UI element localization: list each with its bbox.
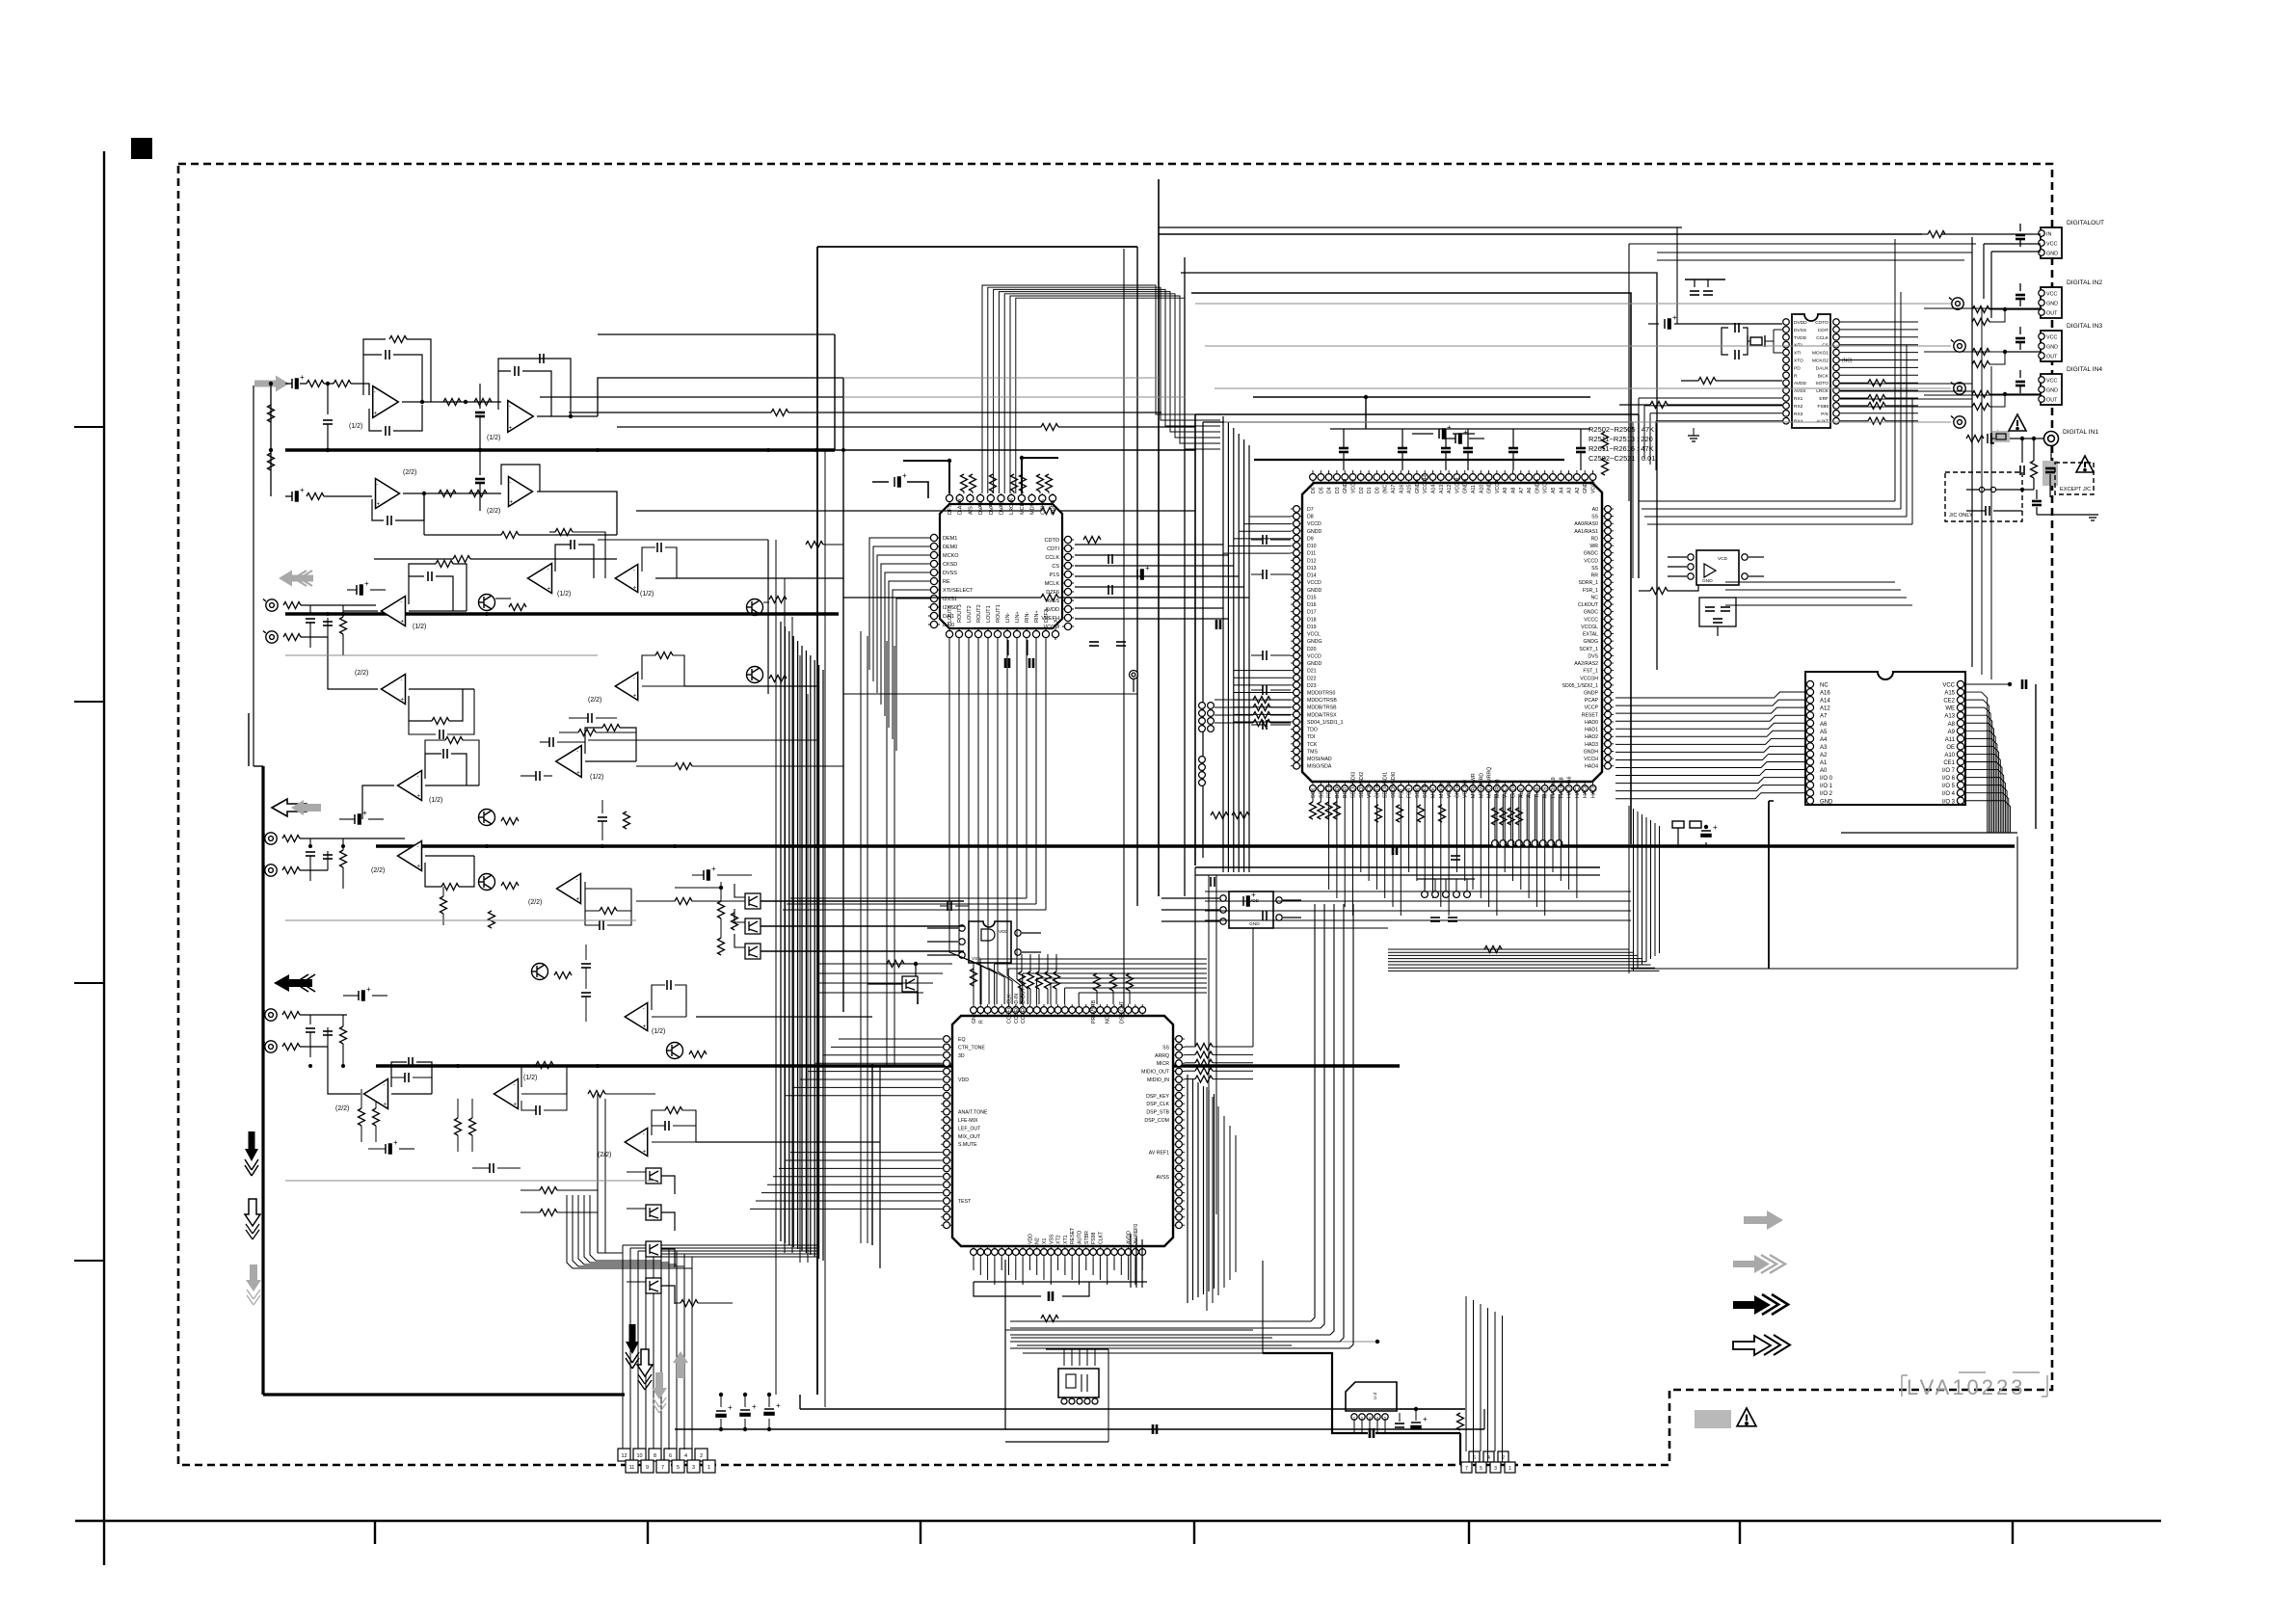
resistor R131	[806, 542, 823, 548]
resistor R169	[689, 1051, 707, 1058]
wire	[407, 339, 431, 402]
wire	[598, 333, 835, 335]
J/C ONLY dashed box	[1945, 472, 2022, 521]
svg-text:GNDG: GNDG	[1455, 783, 1460, 798]
jack J102 R-OUT	[263, 631, 278, 644]
svg-text:J/C ONLY: J/C ONLY	[1949, 513, 1973, 519]
wire U2 left stub	[1223, 552, 1291, 554]
wire	[973, 1258, 974, 1270]
wire	[1022, 951, 1041, 953]
wire U4 right fan	[1964, 793, 2009, 833]
connector pads row (below U2)	[1492, 840, 1562, 847]
wire	[2021, 439, 2023, 463]
wire	[1213, 1070, 1253, 1072]
wire	[1270, 724, 1291, 726]
svg-text:VCCP: VCCP	[1585, 705, 1599, 711]
svg-text:A11: A11	[1945, 737, 1956, 743]
wire	[1668, 575, 1687, 577]
wire mid bundle	[792, 636, 794, 1247]
wire	[585, 945, 587, 960]
wire	[903, 461, 949, 493]
capacitor C1612	[1108, 585, 1112, 595]
resistor R5101	[1698, 378, 1716, 385]
capacitor C5103	[1690, 291, 1699, 295]
svg-text:+: +	[362, 809, 367, 817]
junction	[2003, 350, 2007, 354]
wire feedback	[363, 355, 382, 395]
resistor R243	[1253, 720, 1270, 727]
svg-text:+: +	[400, 619, 404, 625]
wire	[652, 1110, 665, 1135]
wire	[1270, 573, 1291, 575]
wire	[1467, 429, 1469, 448]
svg-text:HA2/HA9: HA2/HA9	[1551, 777, 1557, 798]
svg-text:VCCB: VCCB	[1367, 784, 1373, 798]
resistor R2611	[1211, 812, 1228, 819]
wire	[442, 887, 444, 896]
svg-text:1: 1	[1508, 1466, 1511, 1472]
svg-text:CTR_TONE: CTR_TONE	[958, 1045, 985, 1051]
wire U2 left stub	[1249, 516, 1291, 518]
wire bus y1330	[974, 1281, 1147, 1283]
wire	[585, 882, 600, 911]
resistor R152	[675, 763, 692, 770]
wire U4 right fan	[1964, 762, 2002, 834]
svg-text:DIGITAL IN3: DIGITAL IN3	[2067, 323, 2102, 330]
resistor	[1972, 349, 1989, 356]
arrow A4 output (black)	[274, 974, 315, 992]
wire U3 left fan	[761, 1192, 941, 1194]
jack J5	[1951, 416, 1965, 429]
svg-text:WE: WE	[1945, 706, 1955, 712]
bottom ruler tick 4	[1193, 1521, 1195, 1544]
svg-text:TDO: TDO	[1307, 728, 1318, 733]
wire U5 right fan	[1840, 412, 1918, 414]
wire	[402, 401, 501, 403]
svg-text:X: X	[1054, 619, 1059, 623]
svg-text:GND: GND	[972, 1012, 977, 1024]
wire	[1448, 794, 1450, 916]
wire	[1022, 458, 1058, 493]
wire	[2019, 283, 2021, 291]
wire	[309, 623, 311, 648]
resistor R3001	[1019, 971, 1026, 989]
svg-text:HAD0: HAD0	[1585, 720, 1598, 726]
svg-text:A13: A13	[1439, 485, 1445, 493]
resistor R150	[489, 911, 495, 928]
IC U6 (gate) body	[969, 921, 1011, 963]
wire	[470, 558, 617, 560]
svg-text:CDIT: CDIT	[1818, 328, 1829, 333]
svg-text:A13: A13	[1944, 714, 1955, 720]
wire	[585, 968, 587, 989]
wire	[1213, 1062, 1253, 1064]
svg-text:+: +	[416, 793, 420, 799]
wire	[423, 493, 425, 535]
wire mid bundle	[822, 670, 824, 1261]
connector CN1 DIGITAL OUT	[2041, 227, 2062, 258]
capacitor C4102	[1672, 821, 1701, 828]
svg-text:3D: 3D	[958, 1053, 965, 1059]
capacitor C5105	[1665, 319, 1670, 329]
junction	[422, 492, 426, 495]
wire x1180	[1136, 247, 1138, 906]
svg-text:VCCD: VCCD	[1307, 580, 1322, 586]
svg-text:+: +	[576, 770, 580, 776]
wire U1 left fan	[889, 581, 928, 728]
wire	[698, 1302, 733, 1304]
wire	[1107, 1258, 1108, 1285]
junction	[1364, 395, 1368, 399]
wire U3 top fan h	[1065, 987, 1207, 989]
wire U4 left fan	[1615, 700, 1806, 705]
svg-text:3: 3	[692, 1465, 695, 1471]
wire U4 left fan	[1615, 731, 1806, 736]
wire	[409, 721, 436, 734]
svg-text:+: +	[364, 579, 369, 588]
wire	[1312, 794, 1314, 802]
wire	[665, 547, 677, 578]
transistor Q112	[745, 944, 761, 959]
wire to bottom connector	[660, 1245, 662, 1461]
wire	[1520, 794, 1522, 890]
wire	[498, 359, 571, 416]
wire U5 left fan	[1650, 412, 1782, 414]
wire (grey)	[843, 396, 1185, 398]
resistor R106	[443, 399, 461, 406]
svg-text:SS: SS	[1591, 566, 1598, 572]
svg-text:GNDA: GNDA	[1415, 478, 1421, 493]
svg-text:PD: PD	[1794, 365, 1801, 371]
wire U5 left fan	[1644, 405, 1782, 407]
resistor R116	[1041, 595, 1058, 601]
wire	[1161, 909, 1219, 911]
svg-text:HAD1: HAD1	[1585, 728, 1598, 733]
junction	[2003, 307, 2007, 311]
svg-text:9: 9	[646, 1465, 649, 1471]
wire	[1705, 842, 1707, 846]
svg-text:-: -	[383, 1083, 385, 1089]
op-amp U101B	[508, 401, 534, 433]
svg-text:DIGITAL IN4: DIGITAL IN4	[2067, 366, 2102, 373]
svg-text:CCLK: CCLK	[1816, 335, 1829, 341]
wire	[1677, 828, 1679, 846]
svg-text:1: 1	[707, 1465, 710, 1471]
resistor R114	[1041, 424, 1058, 431]
arrow A5 (black down)	[245, 1131, 258, 1176]
svg-text:GND: GND	[2046, 344, 2058, 350]
op-amp U104B	[615, 672, 637, 700]
wire	[675, 887, 721, 889]
wire mid vertical	[775, 540, 777, 1395]
wire	[661, 1176, 675, 1194]
svg-text:TIO0: TIO0	[1535, 786, 1540, 798]
wire connector feed	[590, 1195, 661, 1450]
wire below U2 right	[1205, 900, 1631, 902]
capacitor	[1263, 570, 1267, 579]
resistor R101	[307, 381, 324, 387]
wire	[343, 995, 359, 997]
wire	[1528, 794, 1530, 898]
wire	[1885, 405, 1918, 407]
wire	[682, 1110, 696, 1142]
svg-text:A1: A1	[1820, 760, 1828, 766]
svg-text:A5: A5	[1820, 730, 1828, 735]
wire	[979, 1258, 981, 1275]
wire	[734, 934, 745, 947]
wire	[720, 918, 722, 938]
svg-text:HA1/HA8: HA1/HA8	[1559, 777, 1564, 798]
svg-text:MACK/MRRQ: MACK/MRRQ	[1487, 767, 1493, 798]
wire to bottom connector	[645, 1254, 647, 1461]
wire U5 left fan	[1639, 397, 1782, 399]
svg-text:D6: D6	[1311, 487, 1317, 493]
wire	[309, 856, 311, 881]
wire	[598, 1252, 623, 1254]
jack J3	[1951, 340, 1965, 353]
wire	[374, 558, 453, 560]
bottom ruler tick 5	[1468, 1521, 1470, 1544]
wire	[585, 911, 600, 925]
svg-text:7: 7	[1465, 1466, 1468, 1472]
connector CN5 DIGITAL IN1	[2044, 432, 2059, 446]
capacitor C1614	[1116, 642, 1126, 646]
svg-text:+: +	[377, 501, 381, 507]
resistor R165	[536, 1062, 553, 1069]
svg-text:(1/2): (1/2)	[487, 435, 500, 441]
capacitor C162	[359, 991, 364, 1000]
svg-text:MCLK: MCLK	[1020, 499, 1026, 515]
resistor	[1972, 361, 1989, 368]
resistor R2706	[1500, 808, 1507, 825]
svg-text:+: +	[643, 1150, 647, 1156]
svg-text:A6: A6	[1527, 488, 1533, 493]
junction	[1375, 1340, 1379, 1344]
svg-text:ACI: ACI	[1527, 789, 1533, 798]
svg-text:+: +	[547, 586, 550, 592]
jack J104	[262, 865, 277, 877]
wire trunk x866	[834, 334, 836, 450]
svg-text:GNDA: GNDA	[1583, 478, 1589, 493]
svg-text:VCCD: VCCD	[1307, 653, 1322, 659]
capacitor	[1263, 535, 1267, 545]
svg-text:FSR_1: FSR_1	[1583, 588, 1598, 594]
wire	[1021, 989, 1023, 1004]
wire	[696, 1016, 872, 1018]
connector CN bottom (board-to-board)	[618, 1449, 715, 1473]
wire	[1445, 879, 1447, 891]
capacitor C7001	[1211, 877, 1215, 887]
resistor R141	[282, 867, 300, 874]
wire U3 left fan	[815, 1062, 941, 1064]
wire U3 top fan h	[980, 958, 1207, 960]
wire U2 left stub	[1234, 670, 1291, 672]
wire	[1270, 714, 1291, 716]
resistor R2703	[1418, 805, 1425, 822]
op-amp U105A	[382, 675, 406, 705]
wire DAC-to-QFP net	[1075, 607, 1223, 609]
wire	[646, 1253, 817, 1255]
svg-text:+: +	[575, 896, 579, 902]
resistor R2401	[1928, 231, 1945, 238]
wire	[675, 1302, 681, 1304]
wire	[1135, 1258, 1136, 1285]
wire U3 left fan	[839, 1038, 941, 1040]
resistor R121	[283, 634, 301, 641]
arrow A10 (grey down)	[652, 1372, 667, 1413]
wire to bottom connector	[676, 1251, 678, 1461]
svg-text:HAD3: HAD3	[1585, 742, 1598, 748]
wire	[661, 1249, 675, 1267]
resistor R151	[624, 811, 630, 829]
svg-text:A2: A2	[1820, 753, 1828, 758]
svg-text:AA2/RAS2: AA2/RAS2	[1574, 661, 1598, 667]
wire	[1526, 794, 1528, 839]
legend arrow (black chevron)	[1733, 1294, 1788, 1315]
resistor R123	[436, 561, 453, 568]
wire corner bundle below U2	[1010, 904, 1315, 1321]
wire	[1022, 1258, 1024, 1285]
wire DAC top bus	[1010, 296, 1220, 493]
wire	[1467, 452, 1469, 470]
svg-text:AUTO: AUTO	[1078, 1231, 1083, 1244]
svg-text:GND: GND	[2046, 387, 2058, 393]
svg-text:VCCL: VCCL	[1307, 632, 1321, 638]
wire	[974, 1282, 1041, 1296]
IC U2 right pins	[1562, 506, 1615, 770]
wire	[1047, 954, 1049, 971]
resistor R149	[441, 896, 447, 914]
resistor R3105	[887, 961, 904, 968]
wire	[1966, 510, 1986, 512]
crystal X5101	[1748, 335, 1765, 347]
wire	[1133, 679, 1135, 692]
wire	[1424, 794, 1426, 890]
connector CN3 DIGITAL IN3	[2041, 331, 2062, 361]
resistor R3102	[1110, 973, 1117, 991]
wire U2 left stub	[1244, 523, 1291, 525]
wire	[636, 900, 675, 902]
svg-text:I/O 0: I/O 0	[1820, 776, 1833, 782]
capacitor C2506	[1439, 429, 1445, 439]
wire	[425, 863, 441, 887]
wire bus x2046	[1971, 237, 1973, 667]
capacitor C2531	[1455, 434, 1461, 443]
svg-text:D15: D15	[1307, 595, 1317, 600]
wire	[1071, 1258, 1073, 1280]
capacitor C102	[323, 420, 333, 424]
resistor R105	[389, 336, 407, 343]
wire	[1028, 1258, 1030, 1270]
wire	[471, 1135, 473, 1152]
wire	[2036, 507, 2038, 515]
svg-text:ROUT1: ROUT1	[996, 604, 1001, 623]
svg-text:I/O 6: I/O 6	[1942, 776, 1956, 782]
wire U3 left fan	[785, 1159, 941, 1161]
svg-text:EQ: EQ	[958, 1037, 966, 1043]
wire	[815, 450, 817, 453]
wire	[652, 1016, 686, 1018]
wire DAC top bus	[999, 292, 1220, 493]
wire mid vertical	[894, 646, 895, 1066]
resistor R170	[455, 1118, 462, 1135]
resistor R129	[655, 652, 673, 659]
wire	[1013, 492, 1015, 493]
wire	[1924, 351, 2041, 353]
svg-text:LOUT2: LOUT2	[967, 605, 973, 623]
wire U4 right fan	[1964, 746, 1999, 833]
wire	[1402, 452, 1403, 470]
wire	[1647, 523, 1912, 525]
wire U1 left fan	[896, 599, 928, 751]
junction	[456, 1064, 460, 1068]
wire	[2019, 224, 2021, 231]
wire	[684, 685, 816, 687]
svg-text:S.MUTE: S.MUTE	[958, 1142, 977, 1148]
wire U3 top fan h	[1051, 982, 1207, 984]
capacitor C105	[515, 366, 519, 376]
bottom ruler tick 3	[920, 1521, 921, 1544]
op-amp U102A	[376, 479, 400, 509]
wire	[692, 874, 704, 876]
wire	[1717, 626, 1719, 636]
svg-text:FSR: FSR	[1407, 787, 1413, 798]
capacitor C2409	[1988, 434, 1993, 443]
wire	[1924, 307, 2041, 309]
svg-text:A12: A12	[1820, 706, 1830, 712]
svg-text:CODEC-CLK: CODEC-CLK	[1007, 994, 1013, 1024]
wire U3 left fan	[773, 1176, 941, 1178]
wire	[652, 1141, 696, 1143]
svg-text:D11: D11	[1307, 551, 1316, 557]
wire connector feed	[573, 1195, 684, 1450]
wire	[2016, 837, 2018, 969]
resistor R171	[469, 1118, 476, 1135]
ferrite bead L2401	[1992, 431, 2010, 442]
wire	[521, 1189, 540, 1191]
wire	[1251, 724, 1263, 726]
svg-text:GND: GND	[1820, 799, 1833, 805]
resistor R3004	[1045, 971, 1052, 989]
svg-text:+: +	[752, 1402, 757, 1411]
wire	[627, 1244, 646, 1246]
bottom ruler tick 2	[647, 1521, 649, 1544]
wire	[1989, 394, 2005, 407]
capacitor C2522	[1393, 845, 1397, 855]
wire	[1213, 1046, 1253, 1048]
svg-text:A2: A2	[1575, 488, 1581, 493]
wire U5 to bus	[1840, 398, 1972, 400]
wire U3 left fan	[823, 1054, 941, 1056]
capacitor C8002	[1705, 607, 1715, 611]
wire to bottom connector	[668, 1248, 670, 1450]
capacitor C145	[536, 771, 540, 781]
svg-text:+: +	[633, 694, 637, 700]
wire U3 top fan	[1022, 973, 1024, 1004]
wire U2 left stub	[1234, 706, 1291, 708]
capacitor C121	[323, 622, 333, 625]
resistor R3104	[971, 969, 977, 986]
svg-text:-: -	[374, 390, 376, 396]
wire U5 to bus	[1840, 383, 1972, 385]
svg-text:(1/2): (1/2)	[590, 774, 603, 781]
wire	[1694, 279, 1695, 287]
wire	[1215, 714, 1253, 716]
svg-text:SCKT_1: SCKT_1	[1579, 647, 1598, 652]
op-amp U106A	[398, 771, 422, 801]
wire	[963, 492, 965, 493]
svg-text:D22: D22	[1307, 676, 1317, 681]
